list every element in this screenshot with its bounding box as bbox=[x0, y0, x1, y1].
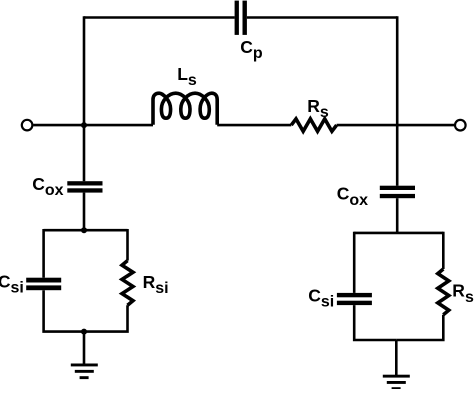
capacitor Csi right bbox=[337, 293, 372, 305]
wire Rsi left to bottom bbox=[84, 305, 128, 331]
wire Rs to port 2 bbox=[337, 124, 454, 127]
capacitor Csi left bbox=[26, 278, 61, 290]
wire to Rsi left bbox=[126, 229, 129, 261]
resistor Rsi right bbox=[438, 269, 449, 315]
resistor Rs bbox=[291, 119, 336, 131]
top wire left segment (node A to Cp) bbox=[84, 16, 235, 19]
wire Cox left to left tank bbox=[83, 193, 86, 231]
ground symbol left bbox=[71, 364, 98, 380]
inductor Ls bbox=[153, 93, 217, 125]
left vertical wire node A (top wire through main line to Cox) bbox=[83, 16, 86, 181]
ground stem right bbox=[395, 340, 398, 376]
ground symbol right bbox=[383, 375, 410, 390]
ground stem left bbox=[83, 332, 86, 365]
wire port1 to node A bbox=[33, 124, 153, 127]
resistor Rsi left bbox=[122, 261, 133, 306]
wire to Rsi right bbox=[442, 232, 445, 269]
junction dot left tank top bbox=[81, 227, 87, 233]
capacitor Cp bbox=[235, 1, 247, 35]
capacitor Cox left bbox=[67, 181, 102, 192]
junction dot left tank bottom bbox=[81, 329, 87, 335]
wire Rsi right to bottom bbox=[396, 315, 443, 340]
wire Csi left to bottom bbox=[44, 290, 84, 331]
capacitor Cox right bbox=[380, 186, 415, 199]
left tank top wire bbox=[44, 229, 128, 232]
wire to Csi right bbox=[353, 232, 356, 293]
right vertical wire node B (top wire through main line to Cox right) bbox=[396, 16, 399, 186]
wire Ls to Rs bbox=[217, 124, 291, 127]
port 1 terminal circle bbox=[22, 120, 33, 131]
port 2 terminal circle bbox=[455, 120, 466, 131]
wire Csi right to bottom bbox=[354, 305, 396, 340]
right tank top wire bbox=[354, 232, 443, 235]
top wire right segment (Cp to node B) bbox=[247, 16, 397, 19]
wire Cox right to right tank bbox=[396, 198, 399, 233]
junction dot node A bbox=[81, 122, 87, 128]
wire to Csi left bbox=[42, 229, 45, 278]
